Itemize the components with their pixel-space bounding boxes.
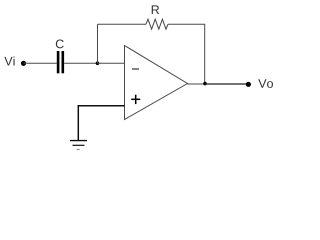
wire op-amp output to node B [188,83,205,85]
node A (inverting input junction) [96,61,100,65]
ground [70,141,87,150]
capacitor C [57,51,64,73]
label C [56,39,64,48]
wire capacitor to node A [64,62,97,64]
label Vi [4,56,14,65]
wire node A up to feedback rail [97,24,99,63]
node B (output junction) [203,82,207,86]
wire node B to output terminal [205,83,248,85]
input terminal dot [21,61,26,66]
op-amp inverting input marker (minus) [132,68,139,70]
resistor R [146,19,168,29]
wire resistor to feedback corner and down to output node [168,24,205,84]
label R [152,5,159,14]
wire Vi terminal to capacitor [24,62,57,64]
op-amp non-inverting input marker (plus) [131,95,140,104]
wire node A to op-amp inverting input [98,62,125,64]
output terminal dot [246,82,251,87]
wire feedback rail to resistor [98,23,147,25]
op-amp U1 [125,46,188,120]
wire non-inverting input to ground drop [78,106,124,141]
label Vo [258,79,273,88]
